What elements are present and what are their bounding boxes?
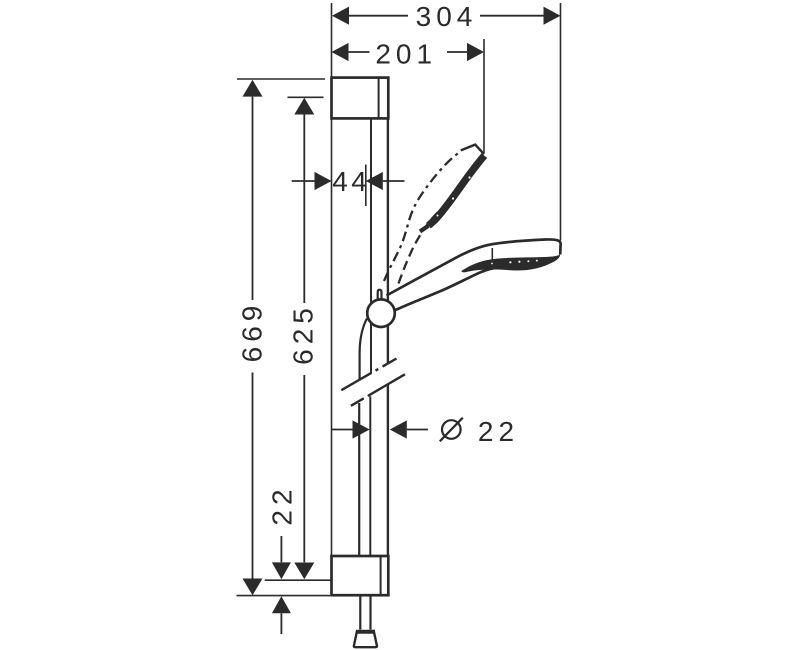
spray mode button tick [491, 248, 493, 261]
dashed position: spray face edge band [429, 156, 485, 226]
dimension 304 line [349, 15, 544, 17]
slider knob [367, 299, 395, 327]
wall bar upper segment [370, 118, 372, 373]
svg-text:201: 201 [375, 39, 437, 70]
wall bar lower segment [369, 396, 371, 556]
dimension 625 extension line top [288, 96, 324, 98]
spray face speckle highlights [491, 260, 538, 265]
dashed position: left curve of handle [384, 152, 459, 281]
hand shower top outline (solid position) [387, 239, 561, 295]
dashed position: head cap outline [461, 145, 484, 155]
top wall bracket [332, 78, 389, 119]
dimension 44 arrows [315, 172, 383, 190]
dimension 201 line [349, 51, 468, 53]
diameter 22 arrows [353, 420, 407, 438]
break symbol upper diagonal (dash-dot) [341, 359, 396, 391]
extension line 304 right [560, 3, 562, 241]
dimension 22 extension lines bottom [237, 580, 332, 595]
dimension 669 extension line top [237, 78, 325, 80]
hose end conical nut [354, 632, 377, 647]
dimension 669 line [252, 97, 254, 579]
diameter 22 dimension line [332, 429, 428, 431]
wall extension line (left reference plane) [331, 3, 333, 556]
shower hose upper segment [360, 319, 367, 380]
bottom wall bracket [332, 556, 389, 595]
dimension 201 arrows [332, 43, 485, 61]
dimension 44 line [292, 180, 405, 182]
dimension 304 arrows [332, 7, 561, 25]
hand shower handle bottom edge (solid position) [395, 268, 495, 310]
shower hose lower segment [358, 403, 360, 556]
dimension 22 line [280, 536, 282, 634]
svg-text:22: 22 [478, 416, 519, 447]
dashed position: right curve of handle [399, 205, 448, 284]
svg-text:44: 44 [332, 166, 370, 197]
dimension 625 arrows [294, 98, 314, 580]
hose below bracket [360, 595, 370, 629]
break symbol lower diagonal [351, 374, 405, 406]
dimension 669 arrows [243, 80, 263, 596]
svg-text:22: 22 [267, 484, 298, 525]
dimension 22 arrows [272, 562, 291, 613]
slider knob pin [378, 290, 382, 300]
dimension 625 line [303, 115, 305, 563]
extension line 201 right [483, 39, 485, 153]
dimension 44 extension tick [365, 165, 367, 207]
hand shower spray face band (solid position) [461, 254, 560, 272]
diameter symbol [442, 420, 461, 439]
svg-text:669: 669 [237, 301, 268, 363]
svg-text:304: 304 [416, 1, 478, 32]
svg-text:625: 625 [288, 303, 319, 365]
